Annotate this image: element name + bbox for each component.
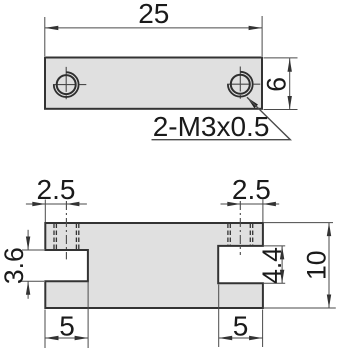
dimension 2.5 right extension line [262, 200, 264, 223]
dimension 2.5 right line [221, 203, 280, 205]
dimension 2.5 left line [26, 203, 87, 205]
dimension 10 line [328, 223, 330, 308]
dimension 2.5 right arrowheads [227, 202, 240, 206]
hole H1 tapped hole M3 [54, 72, 79, 97]
dimension 6 arrowheads [288, 58, 292, 71]
svg-text:2.5: 2.5 [232, 174, 271, 205]
hole H1 centerline cross [53, 67, 86, 99]
centerline right hole (front view) [239, 201, 241, 255]
dimension 10 arrowheads [327, 223, 331, 237]
dimension 2.5 left extension line [44, 200, 46, 223]
svg-text:6: 6 [261, 77, 291, 92]
svg-text:10: 10 [302, 251, 332, 280]
dimension 6 line [289, 58, 291, 109]
dimension 5 right line [219, 337, 263, 339]
dimension 3.6 line segments [27, 230, 29, 299]
dimension 25 line [45, 27, 262, 29]
hidden thread lines left tab [54, 224, 79, 250]
dimension 25 arrowheads [45, 26, 59, 30]
svg-text:5: 5 [59, 310, 75, 341]
svg-text:4.4: 4.4 [257, 247, 287, 284]
hidden thread lines right tab [228, 224, 253, 246]
dimension 3.6 extension lines [21, 250, 44, 281]
svg-text:5: 5 [233, 310, 249, 341]
dimension 5 right arrowheads [219, 336, 233, 340]
centerline left hole (front view) [65, 201, 67, 259]
plate body (top view) [45, 58, 262, 109]
part profile (front view with side slots) [45, 223, 263, 308]
svg-text:3.6: 3.6 [0, 247, 29, 284]
dimension 6 extension lines [264, 58, 298, 110]
dimension 4.4 arrowheads [280, 246, 284, 260]
dimension 5 left line [45, 337, 88, 339]
svg-text:2.5: 2.5 [37, 174, 76, 205]
dimension 3.6 arrowheads [26, 237, 30, 251]
hole H2 tapped hole M3 [228, 72, 253, 97]
dimension 4.4 line [281, 246, 283, 283]
dimension 25 extension lines [45, 16, 262, 56]
dimension 5 right extension lines [219, 285, 263, 348]
dimension 5 left extension lines [45, 281, 88, 348]
dimension 5 left arrowheads [45, 336, 59, 340]
dimension 2.5 left arrowheads [32, 202, 45, 206]
hole H2 centerline cross [227, 67, 260, 99]
dimension 10 extension lines [264, 223, 336, 308]
svg-text:25: 25 [138, 0, 169, 29]
leader 2-M3x0.5 line [152, 97, 291, 140]
dimension 4.4 extension lines [264, 246, 285, 283]
leader 2-M3x0.5 arrowhead [247, 97, 258, 108]
svg-text:2-M3x0.5: 2-M3x0.5 [153, 111, 270, 142]
